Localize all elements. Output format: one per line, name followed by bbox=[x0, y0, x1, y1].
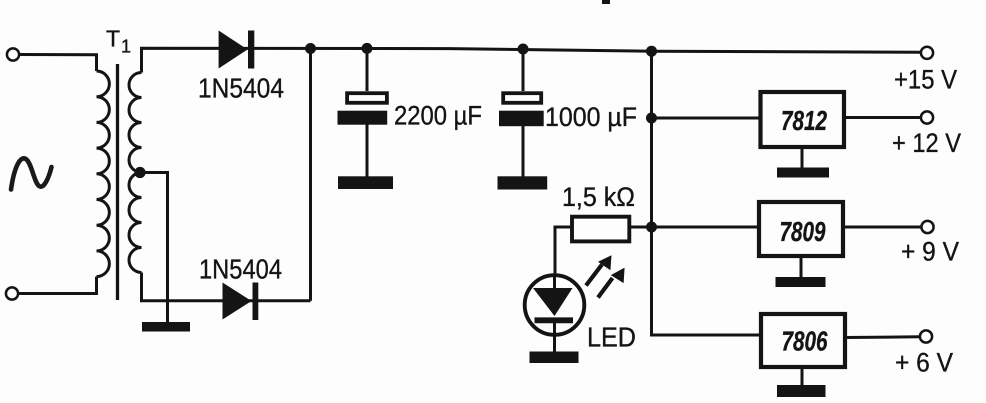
ground C1 bbox=[338, 176, 393, 189]
wire T1 center tap to ground bbox=[140, 173, 168, 323]
capacitor C2 top wire bbox=[522, 49, 525, 91]
LED light arrow 1 bbox=[586, 255, 612, 285]
input terminal bottom bbox=[6, 287, 18, 299]
node junction 7812 input bbox=[646, 113, 657, 124]
node junction D2 riser on bus bbox=[305, 43, 316, 54]
svg-text:1N5404: 1N5404 bbox=[198, 73, 284, 104]
wire D2 cathode riser bbox=[309, 49, 312, 301]
input terminal top bbox=[7, 48, 19, 60]
voltage regulator U2 7809 box bbox=[759, 202, 843, 256]
LED D3 anode wire bbox=[553, 275, 556, 289]
node junction regulator bus top bbox=[646, 46, 657, 57]
svg-text:+15 V: +15 V bbox=[894, 64, 957, 94]
diode D1 1N5404 bbox=[219, 31, 255, 69]
svg-text:7806: 7806 bbox=[782, 326, 828, 357]
ground T1 center tap bbox=[142, 322, 190, 332]
transformer T1 primary winding bbox=[97, 71, 110, 277]
wire 7812 input bbox=[652, 117, 761, 120]
voltage regulator U3 7806 box bbox=[761, 314, 845, 367]
AC sine symbol bbox=[11, 158, 52, 189]
svg-text:7812: 7812 bbox=[781, 105, 827, 136]
node junction C2 bbox=[518, 44, 529, 55]
capacitor C1 bottom wire bbox=[366, 125, 369, 177]
wire 7809 output bbox=[843, 226, 921, 229]
wire top bus +15V rail bbox=[142, 48, 921, 72]
wire 7809 ground stub bbox=[800, 256, 803, 277]
svg-text:1,5 kΩ: 1,5 kΩ bbox=[562, 182, 635, 212]
output terminal +12V bbox=[921, 111, 933, 123]
svg-text:T: T bbox=[106, 26, 120, 52]
wire T1 secondary bottom to D2 and cathode run bbox=[142, 273, 311, 301]
resistor R1 body bbox=[572, 217, 629, 242]
ground 7806 bbox=[777, 385, 826, 397]
svg-text:+ 9 V: + 9 V bbox=[901, 237, 959, 267]
node junction C1 bbox=[362, 43, 373, 54]
diode D2 1N5404 bbox=[223, 283, 259, 321]
LED D3 circle bbox=[525, 275, 585, 335]
LED D3 triangle bbox=[533, 288, 573, 316]
voltage regulator U1 7812 box bbox=[761, 92, 845, 147]
output terminal +9V bbox=[921, 221, 933, 233]
LED D3 cathode bar bbox=[535, 317, 574, 323]
node junction 7809 input / R1 bbox=[646, 222, 657, 233]
capacitor C2 bottom wire bbox=[522, 126, 525, 177]
wire 7812 ground stub bbox=[801, 147, 804, 168]
svg-text:+ 12 V: + 12 V bbox=[892, 128, 961, 158]
svg-text:1: 1 bbox=[121, 37, 131, 57]
wire input bottom to T1 primary bbox=[19, 277, 97, 294]
LED light arrow 2 bbox=[598, 268, 625, 298]
wire 7812 output bbox=[844, 116, 921, 119]
svg-text:+ 6 V: + 6 V bbox=[895, 348, 953, 378]
svg-text:LED: LED bbox=[587, 322, 636, 353]
node T1 center tap bbox=[134, 167, 145, 178]
svg-text:1000 µF: 1000 µF bbox=[545, 102, 637, 132]
svg-text:2200 µF: 2200 µF bbox=[394, 100, 482, 130]
wire LED cathode to ground bbox=[553, 320, 556, 352]
ground C2 bbox=[498, 176, 548, 189]
wire 7806 output bbox=[845, 335, 921, 339]
capacitor C1 top plate bbox=[347, 93, 387, 103]
svg-text:7809: 7809 bbox=[780, 216, 826, 247]
ground 7809 bbox=[776, 277, 826, 287]
ground LED bbox=[530, 352, 579, 364]
wire 7809 input bbox=[652, 226, 760, 229]
output terminal +6V bbox=[920, 330, 932, 342]
wire regulator bus vertical + 7806 input bbox=[652, 51, 762, 335]
label T1 bbox=[106, 26, 131, 57]
output terminal +15V bbox=[921, 47, 933, 59]
ground 7812 bbox=[777, 168, 829, 178]
wire R1 left to LED bbox=[555, 227, 572, 276]
wire 7806 ground stub bbox=[801, 367, 804, 386]
transformer T1 core bbox=[116, 64, 119, 300]
capacitor C1 bottom plate bbox=[338, 111, 388, 125]
svg-text:1N5404: 1N5404 bbox=[199, 254, 282, 285]
wire R1 right to bus bbox=[629, 226, 651, 229]
capacitor C1 top wire bbox=[366, 48, 369, 91]
wire input top to T1 primary bbox=[20, 55, 97, 72]
capacitor C2 top plate bbox=[503, 93, 541, 103]
transformer T1 secondary winding bbox=[129, 73, 142, 273]
capacitor C2 bottom plate bbox=[499, 111, 544, 127]
scan artifact mark top edge bbox=[602, 0, 610, 4]
